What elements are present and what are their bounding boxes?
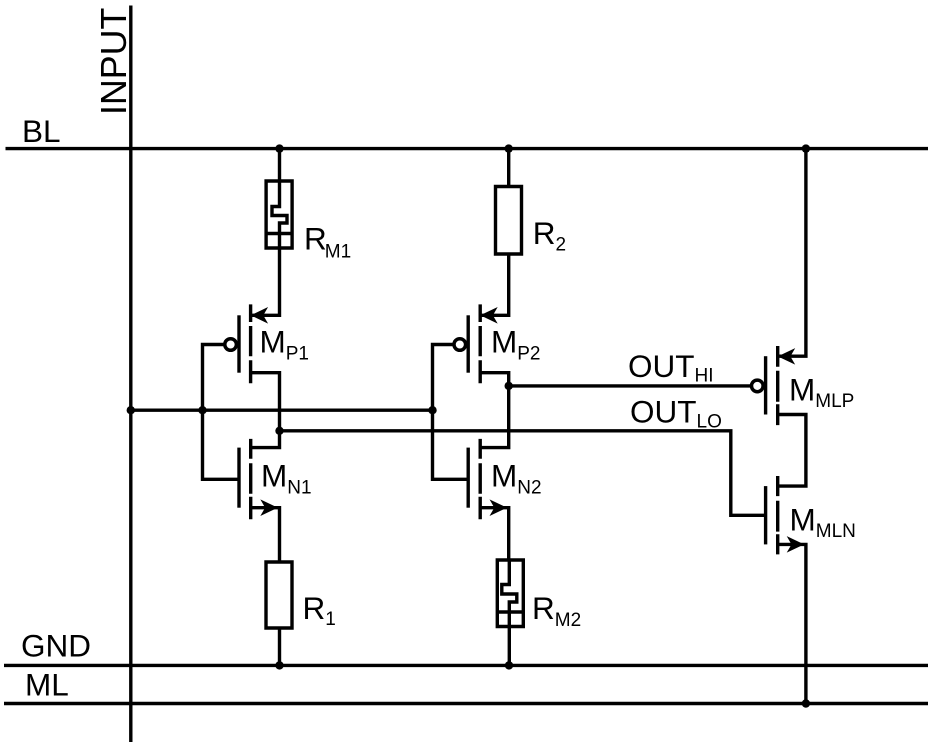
svg-text:ML: ML — [25, 667, 69, 703]
wire OUT_LO net — [280, 431, 766, 516]
wire BL rail — [6, 147, 929, 150]
transistor MP1 — [225, 304, 267, 383]
wire R1 to GND — [278, 628, 281, 665]
memristor RM2 — [497, 560, 523, 627]
wire BL to RM1 — [278, 149, 281, 181]
wire MP2 drain to MN2 drain — [480, 373, 509, 448]
wire gate bus from INPUT — [131, 409, 433, 412]
wire GND rail — [4, 664, 928, 667]
wire MMLN source to ML — [778, 544, 806, 703]
node BL column1 junction — [275, 144, 283, 152]
wire RM1 to MP1 source — [251, 248, 280, 315]
svg-text:GND: GND — [21, 628, 91, 664]
node OUT_LO tap — [275, 427, 283, 435]
resistor R2 — [496, 187, 522, 255]
wire MMLP drain to MMLN drain — [778, 415, 806, 487]
wire ML rail — [4, 702, 928, 705]
transistor MN1 — [239, 439, 276, 519]
wire MP1 gate to bus and MN1 gate — [203, 345, 240, 480]
node OUT_HI tap — [505, 382, 513, 390]
node BL column3 junction — [802, 144, 810, 152]
transistor MN2 — [468, 439, 505, 519]
node GND column2 — [505, 661, 513, 669]
node gate bus on INPUT — [127, 406, 135, 414]
transistor MP2 — [454, 304, 496, 383]
transistor MMLP — [752, 346, 794, 425]
wire MP1 drain to MN1 drain — [251, 373, 280, 448]
node gate bus column2 — [428, 406, 436, 414]
wire INPUT vertical line — [129, 6, 132, 743]
wire MP2 gate to bus and MN2 gate — [433, 345, 469, 480]
wire OUT_HI net — [509, 384, 752, 387]
wire BL to MMLP source — [778, 149, 806, 357]
node ML column3 — [802, 699, 810, 707]
node gate bus column1 — [198, 406, 206, 414]
memristor RM1 — [266, 181, 292, 248]
wire MN1 source to R1 — [251, 508, 280, 562]
wire RM2 to GND — [508, 627, 511, 666]
node GND column1 — [275, 661, 283, 669]
wire R2 to MP2 source — [480, 254, 509, 315]
wire BL to R2 — [507, 149, 510, 187]
transistor MMLN — [766, 476, 803, 554]
resistor R1 — [266, 562, 292, 628]
wire MN2 source to RM2 — [480, 508, 509, 560]
svg-text:BL: BL — [22, 113, 61, 149]
svg-text:INPUT: INPUT — [94, 7, 134, 115]
node BL column2 junction — [505, 144, 513, 152]
